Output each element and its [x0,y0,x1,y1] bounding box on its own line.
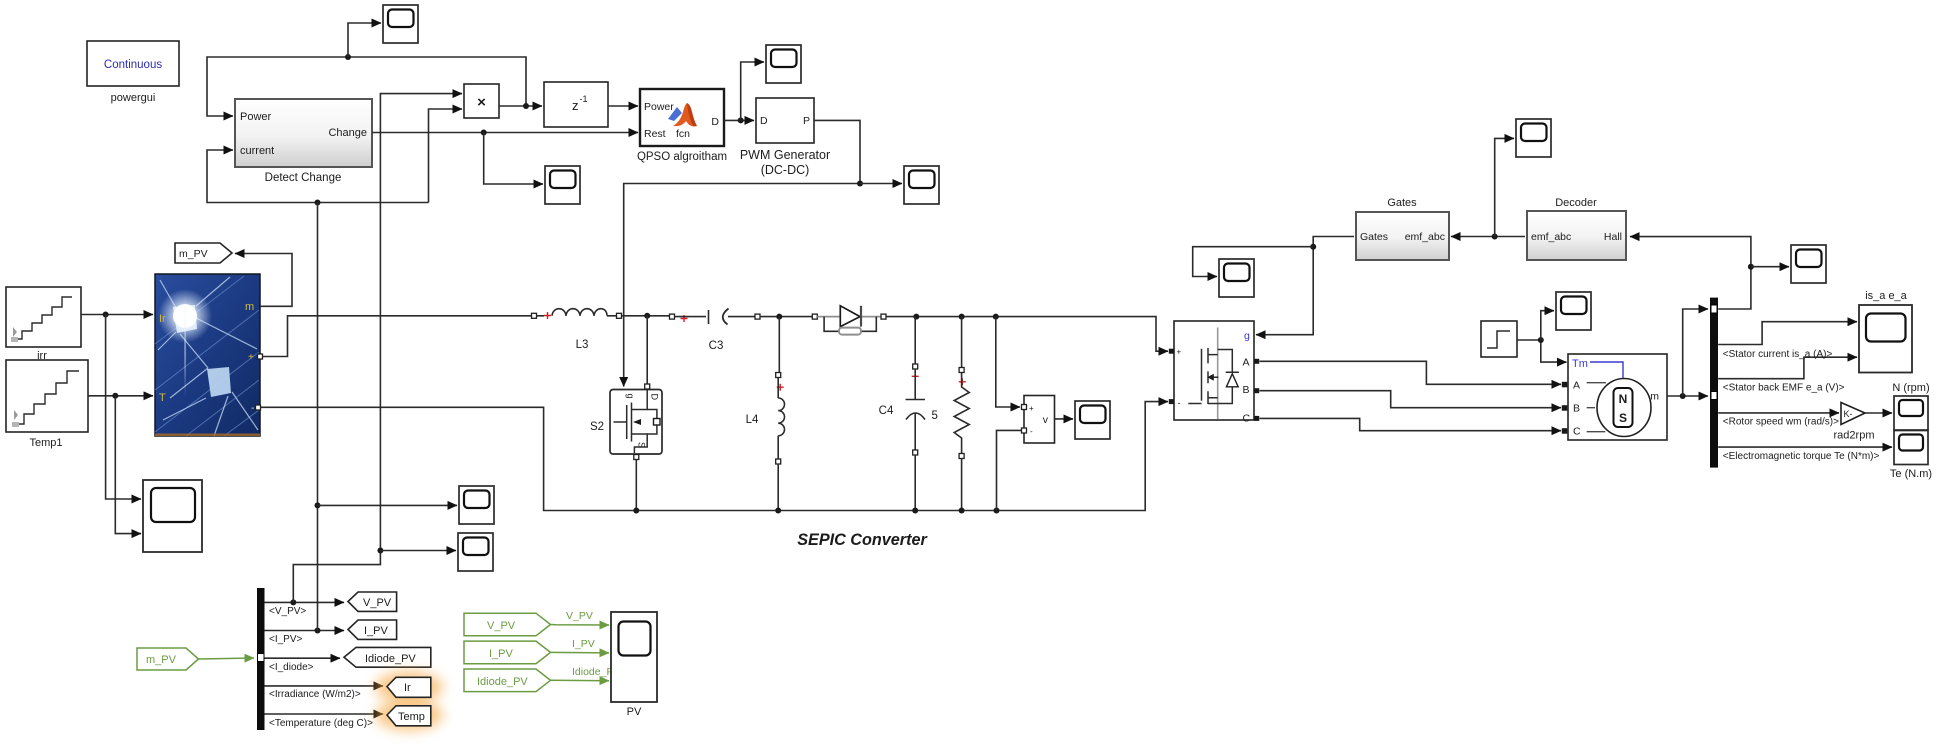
svg-text:L3: L3 [576,339,589,351]
node: R on rail [959,508,965,514]
svg-text:Gates: Gates [1387,197,1417,209]
svg-text:I_PV: I_PV [364,625,389,637]
wire: VM - sense [997,430,1023,510]
svg-text:Temp: Temp [398,711,425,723]
svg-text:Temp1: Temp1 [29,437,62,449]
svg-text:D: D [650,394,660,401]
svg-text:D: D [760,115,768,127]
orange glow Ir [375,671,443,703]
wire: Gates output to bridge g [1256,237,1354,335]
wire: step to Tm [1517,340,1567,362]
motor A port [1562,382,1568,388]
wire: bridge A to motor A [1260,361,1562,384]
node: I_PV vertical joins rail [315,200,321,206]
wire: tap to scope ScB [1193,247,1314,277]
node: Change tap [481,130,487,136]
scope Sc1 [459,486,494,524]
block Gates [1356,212,1449,260]
wire: V_PV line to multiply input 1 [380,94,462,551]
wire: Idiode_PV green to PV scope [551,679,610,681]
scope ScG [1516,119,1551,157]
wire: PWM P down-left to S2 gate [624,120,860,386]
svg-text:is_a e_a: is_a e_a [1865,290,1907,302]
wire: motor m to bus input2 [1667,395,1708,397]
scope Sc3 [545,166,580,204]
node: step tap [1538,337,1544,343]
inductor L4 [776,317,785,511]
svg-text:Idiode_PV: Idiode_PV [477,676,528,688]
node: P tap [857,181,863,187]
svg-text:-: - [1030,427,1033,436]
voltage measurement block [1022,396,1055,444]
bridge + port [1169,349,1174,354]
wire: bus out stator current to scope [1718,322,1857,345]
wire: bridge C to motor C [1260,418,1562,430]
gain rad2rpm [1841,403,1865,425]
node: R tap [959,314,965,320]
scope is_a e_a [1859,305,1912,373]
node: VM- on rail [994,508,1000,514]
svg-text:C: C [1243,413,1251,425]
node: S2 drain tap [644,313,650,319]
wire: D tap up to scope Sc4 [741,62,764,120]
bus input port marker [258,654,265,662]
scope Te [1894,431,1928,465]
node: V_PV tap [290,599,296,605]
wire: z-1 out to QPSO Power [608,105,638,107]
wire: bus out Temperature [265,713,384,715]
svg-text:m_PV: m_PV [179,248,208,260]
powergui block [87,41,179,86]
wire: PV - to SEPIC bottom rail [261,402,1169,511]
wire: bus out I_PV [265,630,345,632]
MATLAB fcn logo [668,103,697,126]
node: junction mult-out / feedback [523,103,529,109]
wire: tap up to scope Sc0 [348,23,381,57]
svg-text:N: N [1619,392,1628,406]
wire: VM + sense [996,317,1020,407]
from tag I_PV (green) [464,641,551,664]
wire: diode to output node [886,317,1168,352]
svg-text:<Stator current is_a (A)>: <Stator current is_a (A)> [1723,349,1833,360]
node: gates tap [1310,244,1316,250]
svg-text:N (rpm): N (rpm) [1892,382,1929,394]
svg-text:Continuous: Continuous [104,59,162,71]
svg-text:<V_PV>: <V_PV> [269,606,306,617]
svg-text:V_PV: V_PV [487,620,516,632]
svg-text:-: - [251,403,254,414]
svg-text:I_PV: I_PV [489,648,514,660]
svg-text:S: S [1619,411,1627,425]
svg-text:<Stator back EMF e_a (V)>: <Stator back EMF e_a (V)> [1723,383,1845,394]
svg-text:-1: -1 [580,94,588,104]
svg-text:m: m [245,301,254,313]
bus input marker 2 [1711,392,1717,400]
node: S2 source on rail [633,508,639,514]
svg-text:(DC-DC): (DC-DC) [761,163,810,177]
wire: gain to N scope [1865,412,1892,414]
scope ScB [1219,259,1254,297]
resistor R load [954,317,969,511]
wire: multiply out to z-1 [499,105,542,107]
wire: Hall signal from bus [1630,237,1751,309]
node: Temp1 tap [112,393,118,399]
scope Sc2 [458,533,493,571]
svg-text:<Temperature (deg C)>: <Temperature (deg C)> [269,718,373,729]
goto tag Idiode_PV [344,647,431,667]
scope PV [611,612,657,702]
bus selector motor measurements [1710,298,1718,468]
goto tag V_PV [348,592,397,611]
svg-text:K-: K- [1844,409,1853,419]
svg-text:Hall: Hall [1604,231,1622,243]
svg-text:v: v [1043,414,1049,426]
wire: bridge B to motor B [1260,391,1562,408]
wire: bus out back EMF to scope [1718,357,1857,379]
svg-text:×: × [477,94,486,111]
wire: L3 to C3 [622,315,670,317]
svg-text:P: P [803,115,810,127]
node: m tap [1680,393,1686,399]
svg-text:SEPIC Converter: SEPIC Converter [797,531,928,549]
goto tag Temp [387,706,431,726]
from tag Idiode_PV (green) [464,669,551,692]
svg-text:PWM Generator: PWM Generator [740,148,830,162]
node: V_PV scope tap [377,548,383,554]
svg-text:Te (N.m): Te (N.m) [1890,468,1932,480]
svg-text:A: A [1243,357,1250,369]
scope ScH [1791,245,1826,283]
svg-text:S2: S2 [590,421,604,433]
wire: tap up to scope ScS [1541,311,1554,340]
svg-text:g: g [626,394,636,399]
node: scope tap on feedback [345,54,351,60]
goto tag Ir [387,677,431,697]
S2 D port [645,384,650,389]
wire: bus out Irradiance [265,685,384,687]
svg-text:Gates: Gates [1360,231,1388,243]
svg-text:B: B [1243,384,1250,396]
svg-text:Ir: Ir [404,682,411,694]
svg-text:emf_abc: emf_abc [1405,231,1445,243]
svg-text:V_PV: V_PV [363,597,392,609]
wire: bus out V_PV [265,601,345,603]
svg-text:<Irradiance (W/m2)>: <Irradiance (W/m2)> [269,689,361,700]
wire: P tap to scope Sc5 [860,183,902,185]
svg-text:m: m [1650,391,1659,403]
node: C4 on rail [912,508,918,514]
wire: Decoder out to Gates in [1451,236,1525,238]
scope Sc5 [904,166,939,204]
block Decoder [1527,211,1626,260]
svg-text:L4: L4 [746,414,759,426]
node: D tap [738,117,744,123]
wire: PV + up to SEPIC top rail [263,316,532,357]
wire: bus out torque to Te scope [1718,446,1892,448]
goto tag m_PV [175,243,232,263]
PV output ports [258,354,263,359]
bridge B port [1254,388,1259,393]
node: L4 on rail [775,508,781,514]
diode D1 [812,306,886,335]
svg-text:-: - [1178,398,1181,408]
capacitor C4 [906,317,926,511]
scope ScS [1556,292,1591,330]
wire: Change tap down to scope Sc3 [484,133,543,185]
svg-text:+: + [1177,348,1182,357]
svg-text:Power: Power [644,101,674,113]
multiply block [464,84,499,118]
svg-text:Rest: Rest [644,128,666,140]
from tag m_PV (green) [137,648,199,670]
block Step [1481,321,1517,357]
svg-text:Detect Change: Detect Change [265,172,342,184]
svg-text:<I_diode>: <I_diode> [269,662,314,673]
block Detect Change [235,99,372,167]
svg-text:5: 5 [932,410,938,422]
svg-text:rad2rpm: rad2rpm [1834,430,1875,442]
wire: irr tap down to scope ScL input1 [106,315,141,500]
svg-text:g: g [1244,330,1250,342]
svg-text:current: current [240,145,274,157]
wire: S2 source down to bottom rail [635,460,637,511]
wire: I_PV up [317,203,319,631]
bus input marker 1 [1711,305,1717,313]
wire: m_PV tag to bus input [199,658,255,659]
svg-text:I_PV: I_PV [572,638,595,650]
wire: V_PV tap to scope Sc2 [380,550,456,552]
block Temp1 signal builder [6,360,88,432]
capacitor C3 [670,309,761,325]
scope ScL (irr/Temp scope) [143,480,202,552]
bus selector PV measurements [257,588,265,730]
node: VM+ tap [993,314,999,320]
from tag V_PV (green) [464,613,551,636]
svg-text:m_PV: m_PV [146,654,177,666]
BLDC motor block [1568,354,1667,440]
block PWM Generator [756,98,814,143]
svg-text:C3: C3 [709,340,724,352]
wire: tap up to scope ScG [1495,138,1514,236]
scope Sc0 (top) [383,5,418,43]
wire: Temp1 tap down to scope ScL input2 [115,396,141,534]
node: hall tap [1748,264,1754,270]
svg-text:Tm: Tm [1572,358,1588,370]
node: I_PV scope tap [315,502,321,508]
svg-text:Change: Change [328,127,367,139]
block QPSO MATLAB function [640,89,724,146]
svg-text:A: A [1573,380,1580,392]
block z-1 unit delay [544,82,608,127]
wire: I_PV rail up to multiply input 2 [429,109,463,203]
wire: I_PV green to PV scope [551,651,610,654]
PV array block [155,274,260,436]
wire: I_PV tap to scope Sc1 [318,504,458,506]
node: L4 tap [776,314,782,320]
svg-text:emf_abc: emf_abc [1531,231,1571,243]
bridge A port [1254,359,1259,364]
svg-text:<Electromagnetic torque Te (N*: <Electromagnetic torque Te (N*m)> [1723,451,1880,462]
node: irr tap [103,312,109,318]
wire: current input from I_PV rail [207,150,429,203]
inductor L3 [532,309,622,319]
svg-text:fcn: fcn [676,128,690,140]
wire: Change out to QPSO Rest [372,132,638,134]
svg-text:C: C [1573,426,1581,438]
node: I_PV tap [315,628,321,634]
wire: feedback loop to Power input [207,57,526,116]
node: C4 tap [913,314,919,320]
scope Sc4 [766,45,801,83]
svg-text:z: z [572,98,579,113]
svg-text:+: + [1029,404,1034,413]
node: decoder tap [1492,234,1498,240]
svg-text:powergui: powergui [111,92,156,104]
svg-text:Ir: Ir [159,313,166,325]
wire: C3 to diode [760,316,813,318]
bridge - port [1169,399,1174,404]
wire: tap to scope ScH [1751,266,1789,268]
wire: QPSO D to PWM D [724,119,754,121]
wire: bus out I_diode [265,657,341,659]
wire: PV m to m_PV tag [235,254,292,307]
motor C port [1562,428,1568,434]
svg-text:C4: C4 [879,405,894,417]
wire: Temp1 to PV T input [88,395,153,397]
svg-text:Decoder: Decoder [1555,197,1597,209]
MOSFET block S2 [610,390,662,455]
wire: V_PV up to scope2 and multiply [293,551,380,603]
svg-text:T: T [159,392,166,404]
wire: bus out rotor speed to gain [1718,412,1839,414]
svg-text:D: D [711,116,719,128]
svg-text:PV: PV [627,706,642,718]
wire: tap down to S2 D [646,316,648,384]
S2 S port [634,455,639,460]
wire: irr to PV Ir input [81,314,153,316]
wire: V_PV green to PV scope [551,624,610,627]
svg-text:+: + [248,352,254,363]
wire: m tap up to bus input1 [1683,309,1708,396]
svg-text:Idiode_PV: Idiode_PV [365,653,416,665]
motor B port [1562,405,1568,411]
svg-text:<Rotor speed wm (rad/s)>: <Rotor speed wm (rad/s)> [1723,417,1839,428]
goto tag I_PV [348,620,397,639]
svg-text:<I_PV>: <I_PV> [269,634,303,645]
wire: VM to scope Sc6 [1055,418,1074,420]
svg-text:V_PV: V_PV [566,610,593,622]
bridge C port [1254,416,1259,421]
svg-text:B: B [1573,403,1580,415]
orange glow Temp [375,699,443,731]
scope Sc6 [1075,401,1110,439]
mosfet bridge block [1174,321,1254,425]
block irr signal builder [6,287,81,347]
scope N rpm [1894,396,1928,430]
svg-text:Power: Power [240,111,272,123]
svg-text:QPSO algroitham: QPSO algroitham [637,151,727,163]
